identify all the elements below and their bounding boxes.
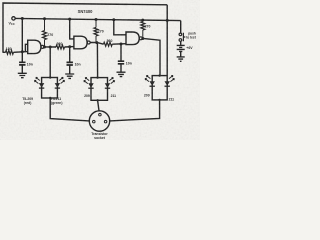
resistor R6 270 vertical <box>142 20 144 21</box>
wire button to battery <box>180 41 182 45</box>
NAND gate U1b <box>74 36 87 49</box>
LED D3 D4 left diode <box>88 83 93 88</box>
wire C1 to ground <box>21 65 23 73</box>
wire right feedback vertical <box>166 5 168 76</box>
wire Vcc rail <box>15 18 180 20</box>
node A <box>21 50 24 53</box>
LED pair D1 D2 loop <box>42 78 58 99</box>
node rail junction A <box>21 17 24 20</box>
node bottom of D3 D4 <box>96 99 98 101</box>
wire pair1 bottom to rail <box>50 98 89 121</box>
wire R5 to gate3 input <box>112 43 126 46</box>
wire rail drop to gate2 upper input <box>70 19 74 39</box>
LED pair D3 D4 loop <box>91 78 108 101</box>
node top of D3 D4 <box>96 76 98 78</box>
node rail junction C <box>68 18 71 21</box>
ground under C1 <box>18 73 27 77</box>
node top of D1 D2 <box>49 76 51 78</box>
wire corner to R1 <box>3 51 6 53</box>
node gate1 output / R2 <box>43 46 46 49</box>
resistor R1 180 <box>6 50 14 54</box>
node top of D5 D6 <box>158 74 160 76</box>
node rail junction G <box>166 19 169 22</box>
wire rail drop to node A <box>21 19 23 52</box>
node LED pair1 drop <box>49 46 52 49</box>
resistor R2 270 vertical <box>44 19 46 31</box>
transistor socket circle <box>89 111 109 131</box>
node rail junction B <box>43 17 46 20</box>
node bottom of D5 D6 <box>158 99 160 101</box>
node bottom of D1 D2 <box>49 97 51 99</box>
LED D1 D2 left diode <box>39 83 44 88</box>
resistor R3 560 <box>56 45 65 49</box>
wire R3 to gate2 input <box>65 46 74 48</box>
wire rail drop to gate3 upper input <box>114 20 126 35</box>
wire node A to C1 <box>21 52 23 62</box>
NAND gate U1a <box>28 40 41 53</box>
capacitor C1 10n <box>19 62 25 65</box>
LED D5 D6 right diode <box>165 81 170 86</box>
resistor R4 270 vertical <box>95 20 97 28</box>
socket pin top <box>99 113 102 116</box>
wire gate2 output <box>90 43 103 45</box>
wire C2 to ground <box>69 65 71 74</box>
wire gate3 output <box>142 38 160 75</box>
capacitor C3 10n <box>118 61 124 64</box>
node rail junction D <box>95 18 98 21</box>
terminal Vcc <box>12 17 15 20</box>
node rail junction E <box>112 18 115 21</box>
wire node B2 to C2 <box>69 47 71 62</box>
capacitor C2 10n <box>67 62 73 65</box>
wire rail corner to push button <box>180 21 182 33</box>
wire C3 to ground <box>120 64 122 72</box>
node C3 drop <box>120 43 123 46</box>
wire node to C3 <box>120 44 122 61</box>
wire drop to LED pair 2 <box>96 43 98 78</box>
ground under C3 <box>117 72 126 76</box>
node B2 <box>68 45 71 48</box>
LED D5 D6 left diode <box>150 81 155 86</box>
wire feedback top line <box>3 3 167 52</box>
push button S1 <box>179 33 182 36</box>
wire gate1 output <box>44 46 56 48</box>
wire gate1 upper input jog <box>25 44 27 51</box>
battery B1 6V <box>177 45 185 51</box>
wire drop to LED pair 1 <box>49 47 51 78</box>
node gate3 output <box>141 37 144 40</box>
socket pin right <box>104 120 107 123</box>
LED pair D5 D6 loop <box>152 76 167 100</box>
node rail junction F <box>141 19 144 22</box>
wire pair3 bottom to rail <box>110 100 160 121</box>
wire battery to ground <box>180 51 182 57</box>
wire pair2 bottom to socket top <box>98 100 99 111</box>
resistor R5 560 <box>104 42 113 46</box>
node gate2 output <box>95 41 98 44</box>
wire R1 to gate 1 input <box>14 51 28 54</box>
ground under C2 <box>65 74 74 78</box>
socket pin left <box>93 120 96 123</box>
LED D3 D4 right diode <box>105 83 110 88</box>
LED D1 D2 right diode <box>55 83 60 88</box>
ground battery <box>177 57 185 61</box>
NAND gate U1c <box>126 32 139 45</box>
